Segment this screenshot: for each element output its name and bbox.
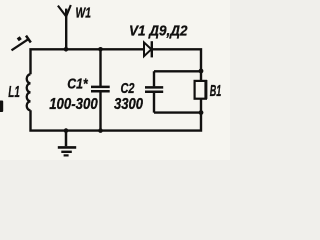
svg-text:100-300: 100-300 bbox=[49, 96, 98, 113]
svg-text:3300: 3300 bbox=[114, 96, 143, 113]
svg-text:L1: L1 bbox=[8, 84, 20, 101]
svg-text:C1*: C1* bbox=[67, 77, 89, 93]
svg-text:C2: C2 bbox=[121, 81, 135, 97]
svg-text:W1: W1 bbox=[76, 5, 92, 22]
svg-text:B1: B1 bbox=[210, 83, 222, 100]
svg-text:V1 Д9,Д2: V1 Д9,Д2 bbox=[129, 23, 188, 40]
